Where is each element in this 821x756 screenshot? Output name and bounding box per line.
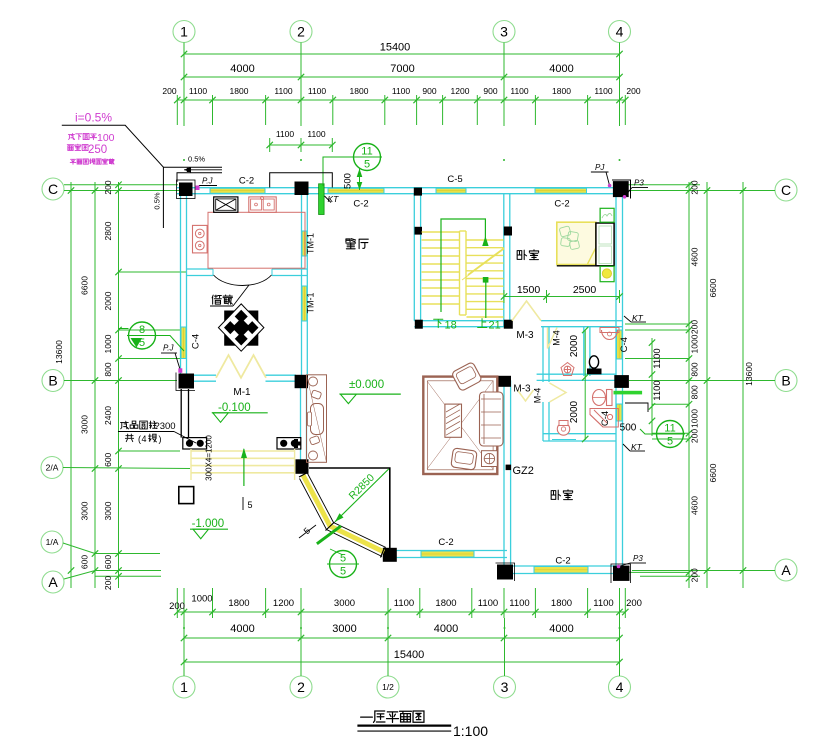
svg-text:A: A [48,574,58,590]
GZ2 marker [506,465,512,471]
svg-text:200: 200 [690,320,700,334]
svg-text:C-4: C-4 [191,334,202,349]
svg-text:1100: 1100 [594,86,613,96]
svg-text:1100: 1100 [652,380,663,400]
svg-text:1100: 1100 [276,129,295,139]
wall stair right / bedroom left [503,194,505,327]
level mark -1.000 [190,518,228,539]
sofa armchair top [451,362,482,392]
svg-text:1500: 1500 [517,284,541,296]
bay window outline black [309,468,390,559]
wall dining right [413,194,415,321]
M-3 hall door V [518,390,534,401]
column grid2xC [295,182,309,196]
svg-text:1100: 1100 [307,129,326,139]
stairs treads right flight [467,239,504,241]
bottom row3 15400 [181,649,623,665]
washbasin top bath [600,328,619,340]
svg-text:-1.000: -1.000 [192,518,225,530]
water heater bag [587,356,602,375]
porch pillar base right [277,438,301,449]
M-3 bedroom door triangle [512,301,541,321]
svg-text:1100: 1100 [593,598,613,609]
magenta note line2 [68,132,114,144]
svg-text:?300: ?300 [154,421,175,432]
level mark -0.100 [212,402,268,422]
svg-text:0.5%: 0.5% [153,192,162,209]
left grid leader lines [64,184,178,186]
kitchen gas stove [193,225,208,253]
wall below stairs and bedroom [414,320,512,322]
wall bath south (M-3 wall) [537,373,616,375]
svg-text:1/A: 1/A [46,537,59,547]
svg-text:7000: 7000 [390,63,414,75]
svg-text:1000: 1000 [103,334,113,353]
entry steps [191,450,295,452]
svg-text:5: 5 [364,159,370,171]
callout PJ top-left [196,177,218,191]
window C-2 top-mid [328,188,384,193]
svg-text:KT: KT [631,442,643,452]
svg-text:C-2: C-2 [239,176,254,187]
callout circle 11/5 right [655,421,685,448]
svg-text:200: 200 [103,576,113,590]
right dim vertical lines [688,182,690,588]
right mid dim [704,187,710,193]
svg-text:11: 11 [361,146,372,158]
level mark +-0.000 [340,379,401,404]
svg-text:250: 250 [88,144,107,156]
wall bottom living [390,550,507,552]
window C-2 living bottom [421,551,474,557]
svg-text:500: 500 [343,173,354,189]
sofa rug [423,377,497,474]
svg-text:4: 4 [141,434,146,444]
svg-text:1100: 1100 [478,598,498,609]
callout circle 11/5 top [352,144,382,171]
wall bath south lower [543,433,616,435]
svg-text:C-2: C-2 [555,556,570,567]
left outer 13600 [68,187,74,193]
svg-text:4600: 4600 [690,496,700,515]
svg-text:1100: 1100 [274,86,293,96]
wall top exterior [177,187,625,189]
svg-text:200: 200 [690,429,700,443]
svg-text:1000: 1000 [690,409,700,428]
stairs break diagonal [468,248,504,275]
R2850 radius [335,469,389,522]
dim 1100/1100 above window grid2 [267,129,336,152]
section line 5 [317,526,341,544]
callout PJ top-right [591,163,611,187]
window C-2 top-left [210,188,265,193]
svg-text:800: 800 [690,385,700,399]
wall porch right [300,381,302,460]
svg-text:100: 100 [97,132,115,144]
stairs treads left flight [422,231,459,233]
svg-text:M-3: M-3 [516,330,534,341]
svg-text:2400: 2400 [103,406,113,425]
right chain stubs [625,323,689,325]
svg-text:200: 200 [626,598,642,609]
svg-text:5: 5 [340,566,346,578]
window C-4 left [181,327,186,359]
text up 21 [478,319,501,332]
column stair SE [504,320,513,329]
porch pillar base left [183,438,207,449]
svg-text:1/2: 1/2 [382,682,394,692]
label storage [212,295,221,304]
svg-text:C: C [781,182,791,198]
wall left exterior [180,188,182,381]
svg-text:i=0.5%: i=0.5% [75,111,112,125]
svg-text:1100: 1100 [652,348,663,368]
section circle 5/5 [327,551,359,578]
svg-text:1000: 1000 [690,334,700,353]
callout circle 8/5 left [127,322,157,349]
svg-text:1100: 1100 [308,86,327,96]
door TM-1 lower [302,286,307,321]
svg-text:18: 18 [445,320,457,332]
bottom chain [169,588,642,618]
wall corridor/bath divider [542,327,544,382]
svg-text:6600: 6600 [708,463,718,482]
column bay north [296,459,309,474]
kitchen door arc [214,275,272,286]
svg-text:5: 5 [247,500,252,510]
svg-text:1800: 1800 [552,86,571,96]
svg-text:3000: 3000 [334,598,355,609]
svg-text:200: 200 [626,86,640,96]
grid circles top [173,21,195,43]
bed pillows scribble [559,226,580,250]
wardrobe green top [600,208,614,222]
floor drain corridor [561,363,574,376]
svg-text:4600: 4600 [690,247,700,266]
KT bar top wall [319,184,325,215]
svg-text:4000: 4000 [434,623,458,635]
svg-text:13600: 13600 [744,362,754,386]
svg-text:P3: P3 [633,554,643,563]
bottom grid circles [173,676,195,698]
callout PJ left C-4 [161,344,182,373]
svg-text:0.5%: 0.5% [188,155,205,164]
svg-text:2000: 2000 [569,400,580,423]
svg-text:500: 500 [620,423,637,434]
svg-text:M-1: M-1 [233,387,251,398]
column bay south [383,548,397,562]
column grid3 mid [504,227,512,236]
svg-text:15400: 15400 [394,649,425,661]
title first floor plan [357,711,488,739]
svg-text:2800: 2800 [103,221,113,240]
column grid1xC [179,183,193,197]
dim line 15400 top [181,42,623,58]
bay window band [303,475,384,552]
svg-text:C-2: C-2 [438,537,453,548]
sofa side table flower [482,451,498,467]
column small dining top [414,188,422,196]
window C-2 bedroom top [535,188,587,193]
svg-text:1: 1 [180,24,188,40]
M-4 door hall (triangle) [550,383,567,402]
wall bath inner divider [583,327,585,376]
bay band mullion ticks [299,473,308,478]
M-1 folding door zigzag [216,355,266,378]
roof drain lines top-left [177,173,222,182]
svg-text:1800: 1800 [228,598,249,609]
svg-text:11: 11 [664,423,675,435]
svg-text:300X4=1200: 300X4=1200 [205,435,214,481]
svg-text:4000: 4000 [230,63,254,75]
svg-text:1800: 1800 [350,86,369,96]
sofa coffee table [445,404,462,437]
svg-text:6600: 6600 [708,278,718,297]
svg-text:PJ: PJ [595,163,605,172]
wall right exterior [615,188,617,574]
svg-text:200: 200 [690,180,700,194]
dining table set [307,375,327,463]
svg-text:3000: 3000 [332,623,356,635]
KT pipe green bottom bath [614,391,643,395]
svg-text:TM-1: TM-1 [306,233,316,254]
svg-text:GZ2: GZ2 [513,465,534,477]
right 1100/1100 dim bath [625,338,663,436]
svg-text:M-4: M-4 [552,330,562,346]
svg-text:2000: 2000 [103,291,113,310]
slope arrow 0.5% [184,155,222,173]
svg-text:C-4: C-4 [619,337,630,352]
svg-text:800: 800 [690,362,700,376]
svg-text:3: 3 [501,679,509,695]
svg-text:5: 5 [340,553,346,565]
svg-text:1100: 1100 [394,598,414,609]
shower corner [590,409,618,428]
svg-text:21: 21 [489,320,501,332]
svg-text:1200: 1200 [451,86,470,96]
svg-text:200: 200 [169,601,185,612]
svg-text:C-5: C-5 [447,174,462,185]
svg-text:B: B [48,373,57,389]
grid line stubs top [183,43,185,127]
wall kitchen right [301,194,303,381]
svg-text:2000: 2000 [569,334,580,357]
column grid1xB [179,374,195,389]
porch corner base square [179,487,194,504]
magenta note line4 [70,159,114,165]
callout P3 bottom-right [617,554,646,568]
wall grid B left segments [194,374,216,376]
svg-text:): ) [159,434,162,444]
svg-text:1100: 1100 [392,86,411,96]
svg-text:3: 3 [500,24,508,40]
column bedroom SW [497,565,513,580]
wardrobe green bottom with plant [600,266,614,281]
svg-text:800: 800 [103,362,113,376]
svg-text:1800: 1800 [551,598,572,609]
svg-text:1800: 1800 [230,86,249,96]
svg-text:A: A [781,562,791,578]
svg-text:2/A: 2/A [46,463,59,473]
svg-text:2: 2 [297,24,305,40]
svg-text:2500: 2500 [573,284,597,296]
text down 18 [434,319,457,331]
right grid circles [775,179,797,201]
svg-text:C-4: C-4 [600,411,611,426]
magenta note line3 [67,144,107,156]
door TM-1 upper [302,231,307,256]
left chain ticks + labels [115,182,121,188]
svg-text:3000: 3000 [80,415,90,434]
svg-text:15400: 15400 [380,42,411,54]
svg-text:P.J: P.J [202,177,214,186]
window C-4 right bottom [617,404,623,421]
svg-text:C-2: C-2 [353,199,368,210]
wall bottom bedroom [504,565,623,567]
bed [557,222,614,266]
overhang outline grid2 [270,173,333,188]
sofa small chair bottom [451,448,477,470]
svg-text:4000: 4000 [549,63,573,75]
svg-text:P.J: P.J [163,344,175,353]
wall kitchen bottom [187,268,214,270]
left mid dim ticks [92,187,98,193]
svg-text:200: 200 [690,568,700,582]
column stair SW [415,320,423,329]
KT label right bottom [623,442,645,452]
right chain ticks + labels [686,182,692,188]
right grid leader lines [625,184,700,186]
svg-text:P3: P3 [634,179,644,188]
left chain stub lines [119,271,187,273]
svg-text:±0.000: ±0.000 [349,379,384,391]
bedside cabinets black frame [596,223,614,266]
svg-text:3000: 3000 [103,501,113,520]
sofa couch right [480,392,504,446]
svg-text:TM-1: TM-1 [306,293,316,314]
porch left black edge [180,389,182,438]
window C-5 top [436,188,466,193]
callout P3 top-right [623,179,648,199]
window C-4 right top [617,330,623,359]
intercom mark porch wall [292,439,301,448]
svg-text:900: 900 [483,86,497,96]
svg-text:1800: 1800 [435,598,456,609]
svg-text:3000: 3000 [80,501,90,520]
column grid4xB [614,375,629,388]
column grid4xC [613,181,629,197]
toilet bottom bath [593,390,613,406]
svg-text:1100: 1100 [510,86,529,96]
window C-2 bedroom bottom [534,567,588,574]
svg-text:KT: KT [632,313,644,323]
column grid2xB [295,375,308,388]
svg-text:600: 600 [103,452,113,466]
dim chain top [162,86,640,125]
svg-text:4: 4 [616,24,624,40]
stairs direction line up21 [485,282,487,318]
right outer 13600 [740,187,746,193]
column hall M-3 [498,376,511,387]
dim 1500/2500 bedroom [501,284,623,303]
basin bottom bath [552,421,576,440]
svg-text:8: 8 [139,324,145,336]
diamond floor tile inlay [218,304,264,351]
KT label top [325,194,340,204]
svg-text:6600: 6600 [80,276,90,295]
column bedroom SE [613,566,630,581]
note round column [118,421,196,444]
dim 500 at KT [343,168,363,190]
svg-text:4: 4 [616,679,624,695]
dim line 4000/7000/4000 top [181,63,623,80]
bottom row2 4000/3000/4000/4000 [181,623,623,641]
steps center arrow [243,449,245,486]
svg-text:2: 2 [297,679,305,695]
label bedroom bottom [551,490,560,499]
svg-text:600: 600 [80,555,90,569]
svg-text:1200: 1200 [273,598,294,609]
left grid circles [42,178,64,200]
column stair NW [415,227,423,235]
svg-text:M-3: M-3 [513,384,531,395]
kitchen double sink [249,196,276,212]
svg-text:B: B [781,373,790,389]
svg-text:5: 5 [667,436,673,448]
svg-text:M-4: M-4 [533,388,543,404]
svg-text:13600: 13600 [54,340,64,364]
kitchen range hood [214,197,238,212]
left dim vertical lines [70,182,72,588]
svg-text:200: 200 [162,86,176,96]
stairs direction line down18 [441,219,485,312]
svg-text:600: 600 [103,555,113,569]
note underline and leader [62,125,164,228]
svg-text:1:100: 1:100 [453,723,488,739]
svg-text:C-2: C-2 [554,199,569,210]
column outline accents [177,180,196,199]
wall living/bedroom divider [503,380,505,566]
svg-text:KT: KT [328,194,340,204]
svg-text:200: 200 [103,180,113,194]
svg-text:1: 1 [180,679,188,695]
svg-text:1000: 1000 [191,594,212,605]
M-4 door top (triangle) [548,328,558,349]
label steps 5 [242,497,244,510]
kitchen counter outline [208,212,305,268]
2000 dims bath [569,327,588,442]
svg-text:4000: 4000 [230,623,254,635]
svg-text:1100: 1100 [189,86,208,96]
svg-text:1100: 1100 [509,598,529,609]
svg-text:900: 900 [422,86,436,96]
svg-text:C: C [48,181,58,197]
stairs center divider [459,231,461,315]
label bedroom top [517,250,526,259]
svg-text:4000: 4000 [549,623,573,635]
KT label right top [624,313,646,323]
label dining room [346,239,356,249]
